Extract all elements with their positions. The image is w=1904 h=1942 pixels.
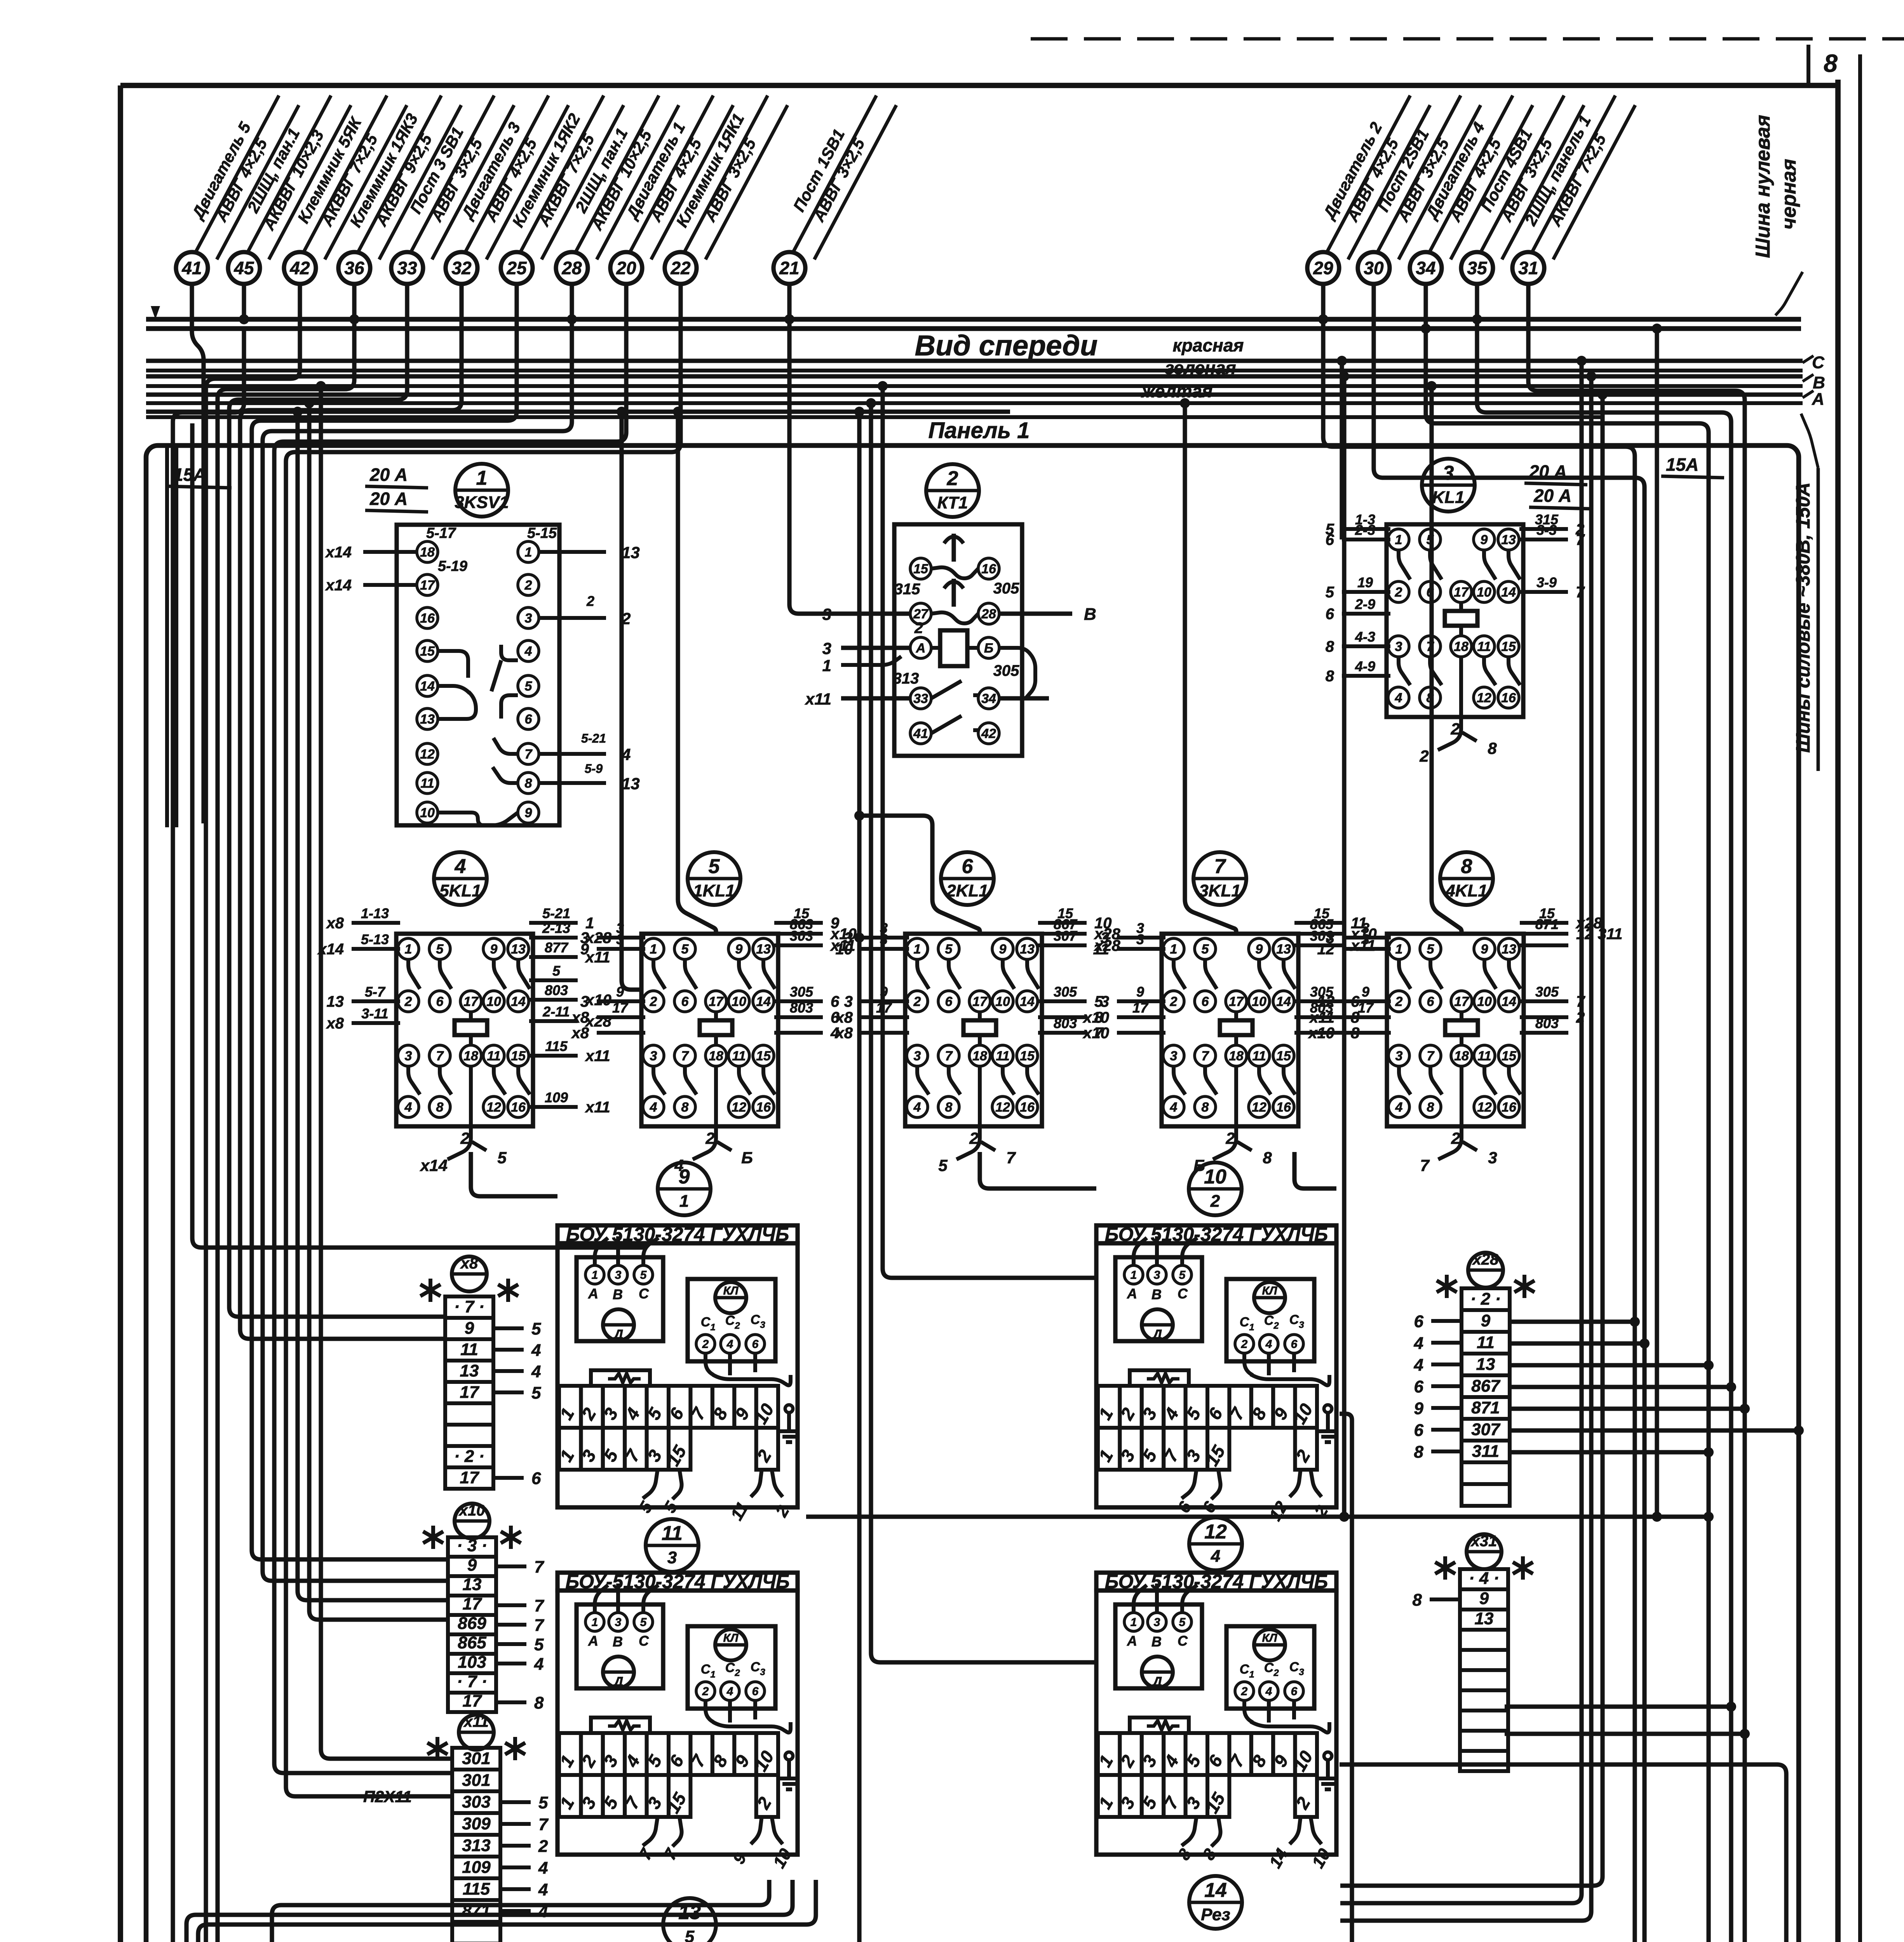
svg-text:17: 17 bbox=[1358, 1000, 1374, 1016]
svg-text:КЛ: КЛ bbox=[1262, 1632, 1277, 1644]
svg-text:2: 2 bbox=[1210, 1192, 1220, 1211]
svg-text:8: 8 bbox=[945, 1100, 953, 1115]
svg-text:15: 15 bbox=[756, 1049, 771, 1063]
svg-text:3: 3 bbox=[525, 611, 532, 626]
svg-text:16: 16 bbox=[981, 562, 996, 576]
svg-text:· 4 ·: · 4 · bbox=[1469, 1569, 1499, 1588]
svg-text:8: 8 bbox=[1326, 668, 1334, 685]
svg-text:5: 5 bbox=[534, 1635, 544, 1654]
svg-text:21: 21 bbox=[779, 258, 799, 278]
svg-text:5: 5 bbox=[640, 1269, 647, 1282]
svg-text:2: 2 bbox=[1241, 1338, 1248, 1351]
svg-text:10: 10 bbox=[836, 941, 853, 958]
svg-text:5KL1: 5KL1 bbox=[439, 881, 481, 900]
svg-text:С: С bbox=[1178, 1633, 1188, 1649]
svg-text:17: 17 bbox=[463, 1594, 483, 1613]
svg-text:x14: x14 bbox=[325, 544, 352, 561]
svg-text:1KL1: 1KL1 bbox=[693, 881, 735, 900]
svg-text:12: 12 bbox=[420, 747, 435, 762]
svg-text:4: 4 bbox=[650, 1100, 657, 1115]
svg-text:зеленая: зеленая bbox=[1165, 358, 1236, 378]
svg-text:12: 12 bbox=[1477, 1100, 1492, 1115]
svg-text:6: 6 bbox=[752, 1338, 759, 1351]
svg-text:2: 2 bbox=[1419, 747, 1428, 765]
svg-text:9: 9 bbox=[467, 1556, 477, 1575]
svg-text:18: 18 bbox=[972, 1049, 987, 1063]
svg-text:877: 877 bbox=[545, 940, 569, 955]
svg-text:1: 1 bbox=[679, 1192, 689, 1211]
svg-text:1: 1 bbox=[1170, 942, 1178, 957]
svg-text:4: 4 bbox=[524, 644, 532, 659]
svg-text:1-3: 1-3 bbox=[1355, 512, 1375, 527]
svg-text:5: 5 bbox=[938, 1156, 948, 1175]
svg-text:С: С bbox=[725, 1660, 735, 1675]
svg-text:5-19: 5-19 bbox=[438, 558, 467, 574]
svg-text:867: 867 bbox=[1471, 1376, 1501, 1396]
svg-text:5: 5 bbox=[1179, 1616, 1186, 1629]
svg-text:2-13: 2-13 bbox=[542, 920, 570, 936]
svg-text:13: 13 bbox=[327, 993, 344, 1010]
svg-text:3: 3 bbox=[1395, 1049, 1403, 1063]
svg-text:17: 17 bbox=[709, 994, 724, 1009]
svg-text:18: 18 bbox=[709, 1049, 723, 1063]
svg-text:865: 865 bbox=[458, 1633, 486, 1652]
svg-text:x11: x11 bbox=[1309, 1009, 1334, 1026]
svg-text:черная: черная bbox=[1778, 159, 1800, 230]
svg-text:3: 3 bbox=[650, 1049, 657, 1063]
svg-text:4: 4 bbox=[538, 1858, 548, 1878]
svg-text:29: 29 bbox=[1313, 258, 1333, 278]
svg-text:2: 2 bbox=[734, 1321, 740, 1331]
svg-text:8: 8 bbox=[436, 1100, 444, 1115]
svg-text:7: 7 bbox=[534, 1616, 545, 1635]
svg-text:18: 18 bbox=[463, 1049, 478, 1063]
svg-text:14: 14 bbox=[1276, 994, 1291, 1009]
svg-text:14: 14 bbox=[1502, 994, 1516, 1009]
svg-text:17: 17 bbox=[1454, 585, 1469, 600]
svg-text:2: 2 bbox=[702, 1685, 709, 1698]
svg-text:6: 6 bbox=[1414, 1377, 1424, 1396]
svg-text:9: 9 bbox=[1481, 1311, 1491, 1330]
svg-text:20 А: 20 А bbox=[1533, 486, 1571, 506]
svg-text:Б: Б bbox=[984, 641, 993, 656]
svg-text:С: С bbox=[751, 1312, 760, 1327]
svg-text:6: 6 bbox=[1326, 606, 1334, 623]
svg-text:16: 16 bbox=[1276, 1100, 1291, 1115]
svg-text:28: 28 bbox=[981, 607, 996, 621]
svg-text:109: 109 bbox=[462, 1858, 491, 1877]
svg-text:16: 16 bbox=[1020, 1100, 1035, 1115]
svg-text:34: 34 bbox=[981, 691, 996, 706]
svg-text:9: 9 bbox=[1481, 942, 1488, 957]
svg-text:19: 19 bbox=[1357, 574, 1373, 590]
svg-text:3-11: 3-11 bbox=[361, 1006, 388, 1021]
svg-text:x14: x14 bbox=[325, 577, 352, 594]
svg-text:2: 2 bbox=[460, 1129, 469, 1147]
svg-text:5: 5 bbox=[945, 942, 953, 957]
svg-text:7: 7 bbox=[1202, 1049, 1210, 1063]
svg-text:x28: x28 bbox=[1472, 1251, 1499, 1268]
svg-text:5: 5 bbox=[436, 942, 444, 957]
svg-text:x10: x10 bbox=[458, 1502, 485, 1519]
svg-text:11: 11 bbox=[1252, 1049, 1266, 1063]
svg-text:9: 9 bbox=[525, 806, 532, 820]
svg-text:А: А bbox=[588, 1633, 598, 1649]
svg-text:9: 9 bbox=[1256, 942, 1263, 957]
svg-text:3: 3 bbox=[667, 1548, 677, 1567]
svg-text:5: 5 bbox=[538, 1793, 548, 1812]
svg-text:7: 7 bbox=[681, 1049, 690, 1063]
svg-text:7: 7 bbox=[525, 747, 533, 762]
svg-text:103: 103 bbox=[458, 1653, 486, 1672]
svg-text:Б: Б bbox=[741, 1148, 753, 1167]
svg-text:33: 33 bbox=[913, 691, 928, 706]
svg-text:6: 6 bbox=[1427, 994, 1435, 1009]
svg-text:5: 5 bbox=[531, 1319, 541, 1338]
svg-text:2: 2 bbox=[1450, 720, 1460, 738]
svg-text:3: 3 bbox=[1488, 1148, 1497, 1167]
svg-text:15: 15 bbox=[1020, 1049, 1035, 1063]
svg-text:15А: 15А bbox=[1666, 454, 1698, 475]
svg-text:4: 4 bbox=[726, 1338, 733, 1351]
svg-text:2: 2 bbox=[1451, 1129, 1460, 1147]
svg-text:3: 3 bbox=[914, 1049, 921, 1063]
svg-text:15: 15 bbox=[1276, 1049, 1291, 1063]
svg-text:15: 15 bbox=[1502, 1049, 1517, 1063]
svg-text:x10: x10 bbox=[1082, 1009, 1109, 1026]
svg-text:6: 6 bbox=[945, 994, 953, 1009]
svg-text:5-15: 5-15 bbox=[527, 525, 557, 541]
svg-text:13: 13 bbox=[463, 1575, 482, 1594]
svg-text:14: 14 bbox=[1204, 1879, 1227, 1902]
svg-text:1: 1 bbox=[476, 467, 488, 489]
svg-text:871: 871 bbox=[1535, 916, 1559, 932]
svg-text:20 А: 20 А bbox=[369, 489, 408, 509]
svg-text:Д: Д bbox=[1151, 1327, 1162, 1342]
svg-text:16: 16 bbox=[511, 1100, 526, 1115]
svg-text:303: 303 bbox=[462, 1792, 490, 1811]
svg-text:x10: x10 bbox=[1308, 1025, 1334, 1042]
svg-text:С: С bbox=[1264, 1313, 1274, 1328]
svg-text:18: 18 bbox=[1454, 639, 1469, 654]
svg-text:x8: x8 bbox=[571, 1009, 589, 1026]
svg-text:8: 8 bbox=[1427, 1100, 1434, 1115]
svg-text:3: 3 bbox=[1154, 1269, 1160, 1282]
svg-text:6: 6 bbox=[1202, 994, 1209, 1009]
svg-text:А: А bbox=[588, 1286, 598, 1302]
svg-text:9: 9 bbox=[1414, 1399, 1424, 1418]
svg-text:14: 14 bbox=[511, 994, 526, 1009]
svg-text:42: 42 bbox=[289, 258, 310, 278]
svg-text:5: 5 bbox=[709, 855, 720, 878]
svg-text:3: 3 bbox=[844, 993, 853, 1010]
svg-text:5: 5 bbox=[1179, 1269, 1186, 1282]
svg-text:25: 25 bbox=[506, 258, 527, 278]
svg-text:16: 16 bbox=[420, 611, 435, 626]
svg-text:3-3: 3-3 bbox=[1536, 522, 1557, 538]
svg-text:6: 6 bbox=[436, 994, 444, 1009]
svg-text:1: 1 bbox=[710, 1669, 715, 1680]
svg-text:КЛ: КЛ bbox=[1262, 1284, 1277, 1297]
svg-text:4: 4 bbox=[674, 1156, 683, 1175]
svg-text:2: 2 bbox=[1273, 1668, 1279, 1678]
svg-text:Д: Д bbox=[613, 1674, 624, 1689]
svg-text:3: 3 bbox=[1154, 1616, 1160, 1629]
svg-text:17: 17 bbox=[463, 1691, 483, 1711]
svg-text:2: 2 bbox=[969, 1129, 978, 1147]
svg-text:15: 15 bbox=[511, 1049, 526, 1063]
svg-text:17: 17 bbox=[972, 994, 988, 1009]
svg-text:18: 18 bbox=[1229, 1049, 1244, 1063]
svg-text:9: 9 bbox=[490, 942, 498, 957]
svg-text:109: 109 bbox=[545, 1089, 568, 1105]
svg-text:13: 13 bbox=[1502, 942, 1516, 957]
svg-text:305: 305 bbox=[993, 662, 1019, 679]
svg-text:14: 14 bbox=[420, 679, 435, 694]
svg-text:желтая: желтая bbox=[1141, 381, 1212, 401]
svg-text:11: 11 bbox=[732, 1049, 746, 1063]
svg-text:5-9: 5-9 bbox=[585, 762, 603, 776]
svg-text:Д: Д bbox=[1151, 1674, 1162, 1689]
svg-text:7: 7 bbox=[1006, 1148, 1016, 1167]
svg-text:7: 7 bbox=[1420, 1156, 1430, 1175]
svg-text:4: 4 bbox=[455, 855, 466, 878]
svg-text:· 2 ·: · 2 · bbox=[1470, 1289, 1501, 1309]
svg-text:3: 3 bbox=[1299, 1667, 1304, 1677]
svg-text:10: 10 bbox=[1204, 1166, 1226, 1188]
svg-text:12: 12 bbox=[1317, 993, 1335, 1010]
svg-text:15: 15 bbox=[1501, 639, 1516, 654]
svg-text:307: 307 bbox=[1054, 928, 1078, 944]
svg-text:2: 2 bbox=[947, 467, 958, 490]
svg-text:1: 1 bbox=[525, 545, 532, 560]
svg-text:5: 5 bbox=[552, 963, 561, 979]
svg-text:5: 5 bbox=[497, 1148, 507, 1167]
svg-text:869: 869 bbox=[458, 1614, 486, 1633]
svg-text:5-21: 5-21 bbox=[542, 905, 570, 921]
svg-text:20: 20 bbox=[616, 258, 636, 278]
svg-text:1: 1 bbox=[1131, 1616, 1137, 1629]
svg-text:1: 1 bbox=[650, 942, 657, 957]
svg-text:4: 4 bbox=[531, 1362, 541, 1381]
svg-text:Рез: Рез bbox=[1201, 1905, 1230, 1924]
svg-text:x11: x11 bbox=[585, 1048, 610, 1065]
svg-text:В: В bbox=[613, 1634, 623, 1650]
svg-text:x8: x8 bbox=[460, 1255, 478, 1272]
svg-text:8: 8 bbox=[1263, 1148, 1272, 1167]
svg-text:КЛ: КЛ bbox=[723, 1632, 739, 1644]
svg-text:16: 16 bbox=[1502, 1100, 1517, 1115]
svg-text:2: 2 bbox=[586, 593, 594, 609]
svg-text:С: С bbox=[1289, 1660, 1299, 1674]
svg-text:12: 12 bbox=[1204, 1521, 1227, 1543]
svg-text:17: 17 bbox=[420, 578, 435, 593]
svg-text:8: 8 bbox=[525, 776, 532, 791]
svg-text:3: 3 bbox=[760, 1320, 765, 1330]
svg-text:13: 13 bbox=[511, 942, 526, 957]
svg-text:3: 3 bbox=[615, 1269, 622, 1282]
svg-text:14: 14 bbox=[1501, 585, 1516, 600]
svg-text:В: В bbox=[613, 1286, 623, 1302]
svg-text:5-17: 5-17 bbox=[426, 525, 456, 541]
svg-text:305: 305 bbox=[1535, 984, 1559, 1000]
svg-text:· 7 ·: · 7 · bbox=[457, 1672, 487, 1691]
svg-text:6: 6 bbox=[531, 1469, 541, 1488]
svg-text:9: 9 bbox=[1481, 532, 1488, 547]
svg-text:4-3: 4-3 bbox=[1355, 629, 1375, 645]
svg-text:5-21: 5-21 bbox=[581, 731, 606, 745]
svg-text:16: 16 bbox=[1501, 691, 1516, 705]
svg-text:3: 3 bbox=[822, 639, 831, 658]
svg-text:13: 13 bbox=[1476, 1355, 1495, 1374]
svg-text:2: 2 bbox=[705, 1129, 714, 1147]
svg-text:С: С bbox=[1178, 1286, 1188, 1302]
svg-text:18: 18 bbox=[1454, 1049, 1469, 1063]
svg-text:2: 2 bbox=[1273, 1321, 1279, 1331]
svg-text:10: 10 bbox=[1252, 994, 1266, 1009]
svg-text:313: 313 bbox=[462, 1836, 490, 1855]
svg-text:С: С bbox=[1289, 1312, 1299, 1327]
svg-text:17: 17 bbox=[1132, 1000, 1149, 1016]
svg-text:22: 22 bbox=[670, 258, 691, 278]
svg-text:13: 13 bbox=[622, 774, 640, 793]
svg-text:7: 7 bbox=[534, 1557, 545, 1577]
svg-text:2: 2 bbox=[913, 994, 921, 1009]
svg-text:7: 7 bbox=[1214, 855, 1226, 878]
svg-text:3KL1: 3KL1 bbox=[1199, 881, 1241, 900]
svg-text:Вид спереди: Вид спереди bbox=[915, 329, 1098, 362]
svg-text:8: 8 bbox=[1414, 1443, 1424, 1462]
svg-text:3: 3 bbox=[615, 1616, 622, 1629]
svg-text:В: В bbox=[1151, 1634, 1162, 1650]
svg-text:11: 11 bbox=[662, 1522, 683, 1545]
svg-text:3: 3 bbox=[580, 993, 589, 1010]
svg-text:14: 14 bbox=[1020, 994, 1035, 1009]
svg-text:КЛ: КЛ bbox=[723, 1284, 739, 1297]
svg-text:3: 3 bbox=[1170, 1049, 1178, 1063]
svg-text:115: 115 bbox=[545, 1038, 568, 1054]
svg-text:12: 12 bbox=[486, 1100, 501, 1115]
svg-text:6: 6 bbox=[752, 1685, 759, 1698]
svg-text:4: 4 bbox=[1211, 1547, 1220, 1566]
svg-text:4: 4 bbox=[1414, 1334, 1423, 1353]
svg-text:7: 7 bbox=[436, 1049, 444, 1063]
svg-text:1: 1 bbox=[405, 942, 412, 957]
svg-text:17: 17 bbox=[1454, 994, 1470, 1009]
svg-text:17: 17 bbox=[612, 1000, 629, 1016]
svg-text:36: 36 bbox=[344, 258, 364, 278]
svg-text:3-9: 3-9 bbox=[1536, 574, 1557, 590]
svg-text:КТ1: КТ1 bbox=[937, 493, 968, 512]
svg-text:2: 2 bbox=[702, 1338, 709, 1351]
svg-text:6: 6 bbox=[962, 855, 974, 878]
svg-text:x8: x8 bbox=[835, 1009, 853, 1026]
svg-text:13: 13 bbox=[756, 942, 771, 957]
svg-text:31: 31 bbox=[1518, 258, 1538, 278]
svg-text:2: 2 bbox=[1395, 994, 1403, 1009]
svg-text:1: 1 bbox=[592, 1616, 598, 1629]
svg-text:305: 305 bbox=[790, 984, 814, 1000]
svg-text:2: 2 bbox=[1241, 1685, 1248, 1698]
svg-text:32: 32 bbox=[451, 258, 472, 278]
svg-text:2: 2 bbox=[914, 619, 923, 637]
svg-text:2: 2 bbox=[524, 578, 532, 593]
svg-text:4: 4 bbox=[913, 1100, 921, 1115]
svg-text:35: 35 bbox=[1467, 258, 1488, 278]
svg-text:2-11: 2-11 bbox=[542, 1004, 570, 1020]
svg-text:13: 13 bbox=[1020, 942, 1035, 957]
svg-text:45: 45 bbox=[233, 258, 254, 278]
svg-text:115: 115 bbox=[463, 1879, 490, 1898]
svg-text:· 7 ·: · 7 · bbox=[454, 1297, 484, 1316]
svg-text:Б: Б bbox=[1193, 1156, 1205, 1175]
svg-text:3: 3 bbox=[1395, 639, 1402, 654]
svg-text:9: 9 bbox=[1479, 1589, 1489, 1608]
svg-text:17: 17 bbox=[460, 1468, 480, 1487]
svg-text:4: 4 bbox=[726, 1685, 733, 1698]
svg-text:11: 11 bbox=[1477, 1333, 1495, 1352]
svg-text:13: 13 bbox=[1276, 942, 1291, 957]
svg-text:x31: x31 bbox=[1470, 1533, 1497, 1550]
svg-text:x14: x14 bbox=[420, 1156, 448, 1175]
svg-text:4: 4 bbox=[1395, 691, 1402, 705]
svg-text:6: 6 bbox=[1291, 1338, 1298, 1351]
svg-text:305: 305 bbox=[1054, 984, 1077, 1000]
svg-text:А: А bbox=[916, 641, 926, 656]
svg-text:Д: Д bbox=[613, 1327, 624, 1342]
svg-text:9: 9 bbox=[999, 942, 1007, 957]
svg-text:9: 9 bbox=[1362, 984, 1369, 1000]
svg-text:С: С bbox=[1240, 1662, 1249, 1677]
svg-text:4: 4 bbox=[538, 1880, 548, 1899]
svg-text:803: 803 bbox=[1054, 1015, 1077, 1031]
svg-text:17: 17 bbox=[1229, 994, 1244, 1009]
svg-text:10: 10 bbox=[1477, 994, 1492, 1009]
svg-text:42: 42 bbox=[981, 726, 996, 741]
svg-text:А: А bbox=[1127, 1286, 1137, 1302]
svg-text:6: 6 bbox=[831, 993, 840, 1010]
svg-text:13: 13 bbox=[622, 543, 640, 562]
svg-text:3: 3 bbox=[1299, 1320, 1304, 1330]
svg-text:1: 1 bbox=[592, 1269, 598, 1282]
svg-text:x11: x11 bbox=[585, 1099, 610, 1116]
svg-text:10: 10 bbox=[1477, 585, 1491, 600]
svg-text:· 2 ·: · 2 · bbox=[454, 1447, 484, 1466]
svg-text:3: 3 bbox=[1136, 931, 1144, 947]
svg-text:11: 11 bbox=[460, 1340, 478, 1359]
svg-text:x8: x8 bbox=[835, 1025, 853, 1042]
svg-text:3KSV1: 3KSV1 bbox=[455, 493, 509, 512]
svg-text:4KL1: 4KL1 bbox=[1445, 881, 1488, 900]
svg-text:· 3 ·: · 3 · bbox=[457, 1536, 487, 1555]
svg-text:10: 10 bbox=[420, 806, 435, 820]
svg-text:13: 13 bbox=[460, 1361, 479, 1380]
svg-text:10: 10 bbox=[995, 994, 1010, 1009]
svg-text:2: 2 bbox=[538, 1837, 548, 1856]
svg-text:2: 2 bbox=[1170, 994, 1178, 1009]
svg-text:x11: x11 bbox=[463, 1713, 489, 1730]
svg-text:20 А: 20 А bbox=[369, 465, 408, 485]
svg-text:С: С bbox=[1264, 1660, 1274, 1675]
svg-text:8: 8 bbox=[681, 1100, 689, 1115]
svg-text:309: 309 bbox=[462, 1814, 491, 1833]
svg-text:С: С bbox=[725, 1313, 735, 1328]
svg-text:3: 3 bbox=[1443, 462, 1454, 484]
svg-text:1: 1 bbox=[822, 656, 831, 675]
svg-text:5: 5 bbox=[685, 1927, 695, 1942]
svg-text:9: 9 bbox=[465, 1319, 474, 1338]
svg-text:2: 2 bbox=[1395, 585, 1402, 600]
